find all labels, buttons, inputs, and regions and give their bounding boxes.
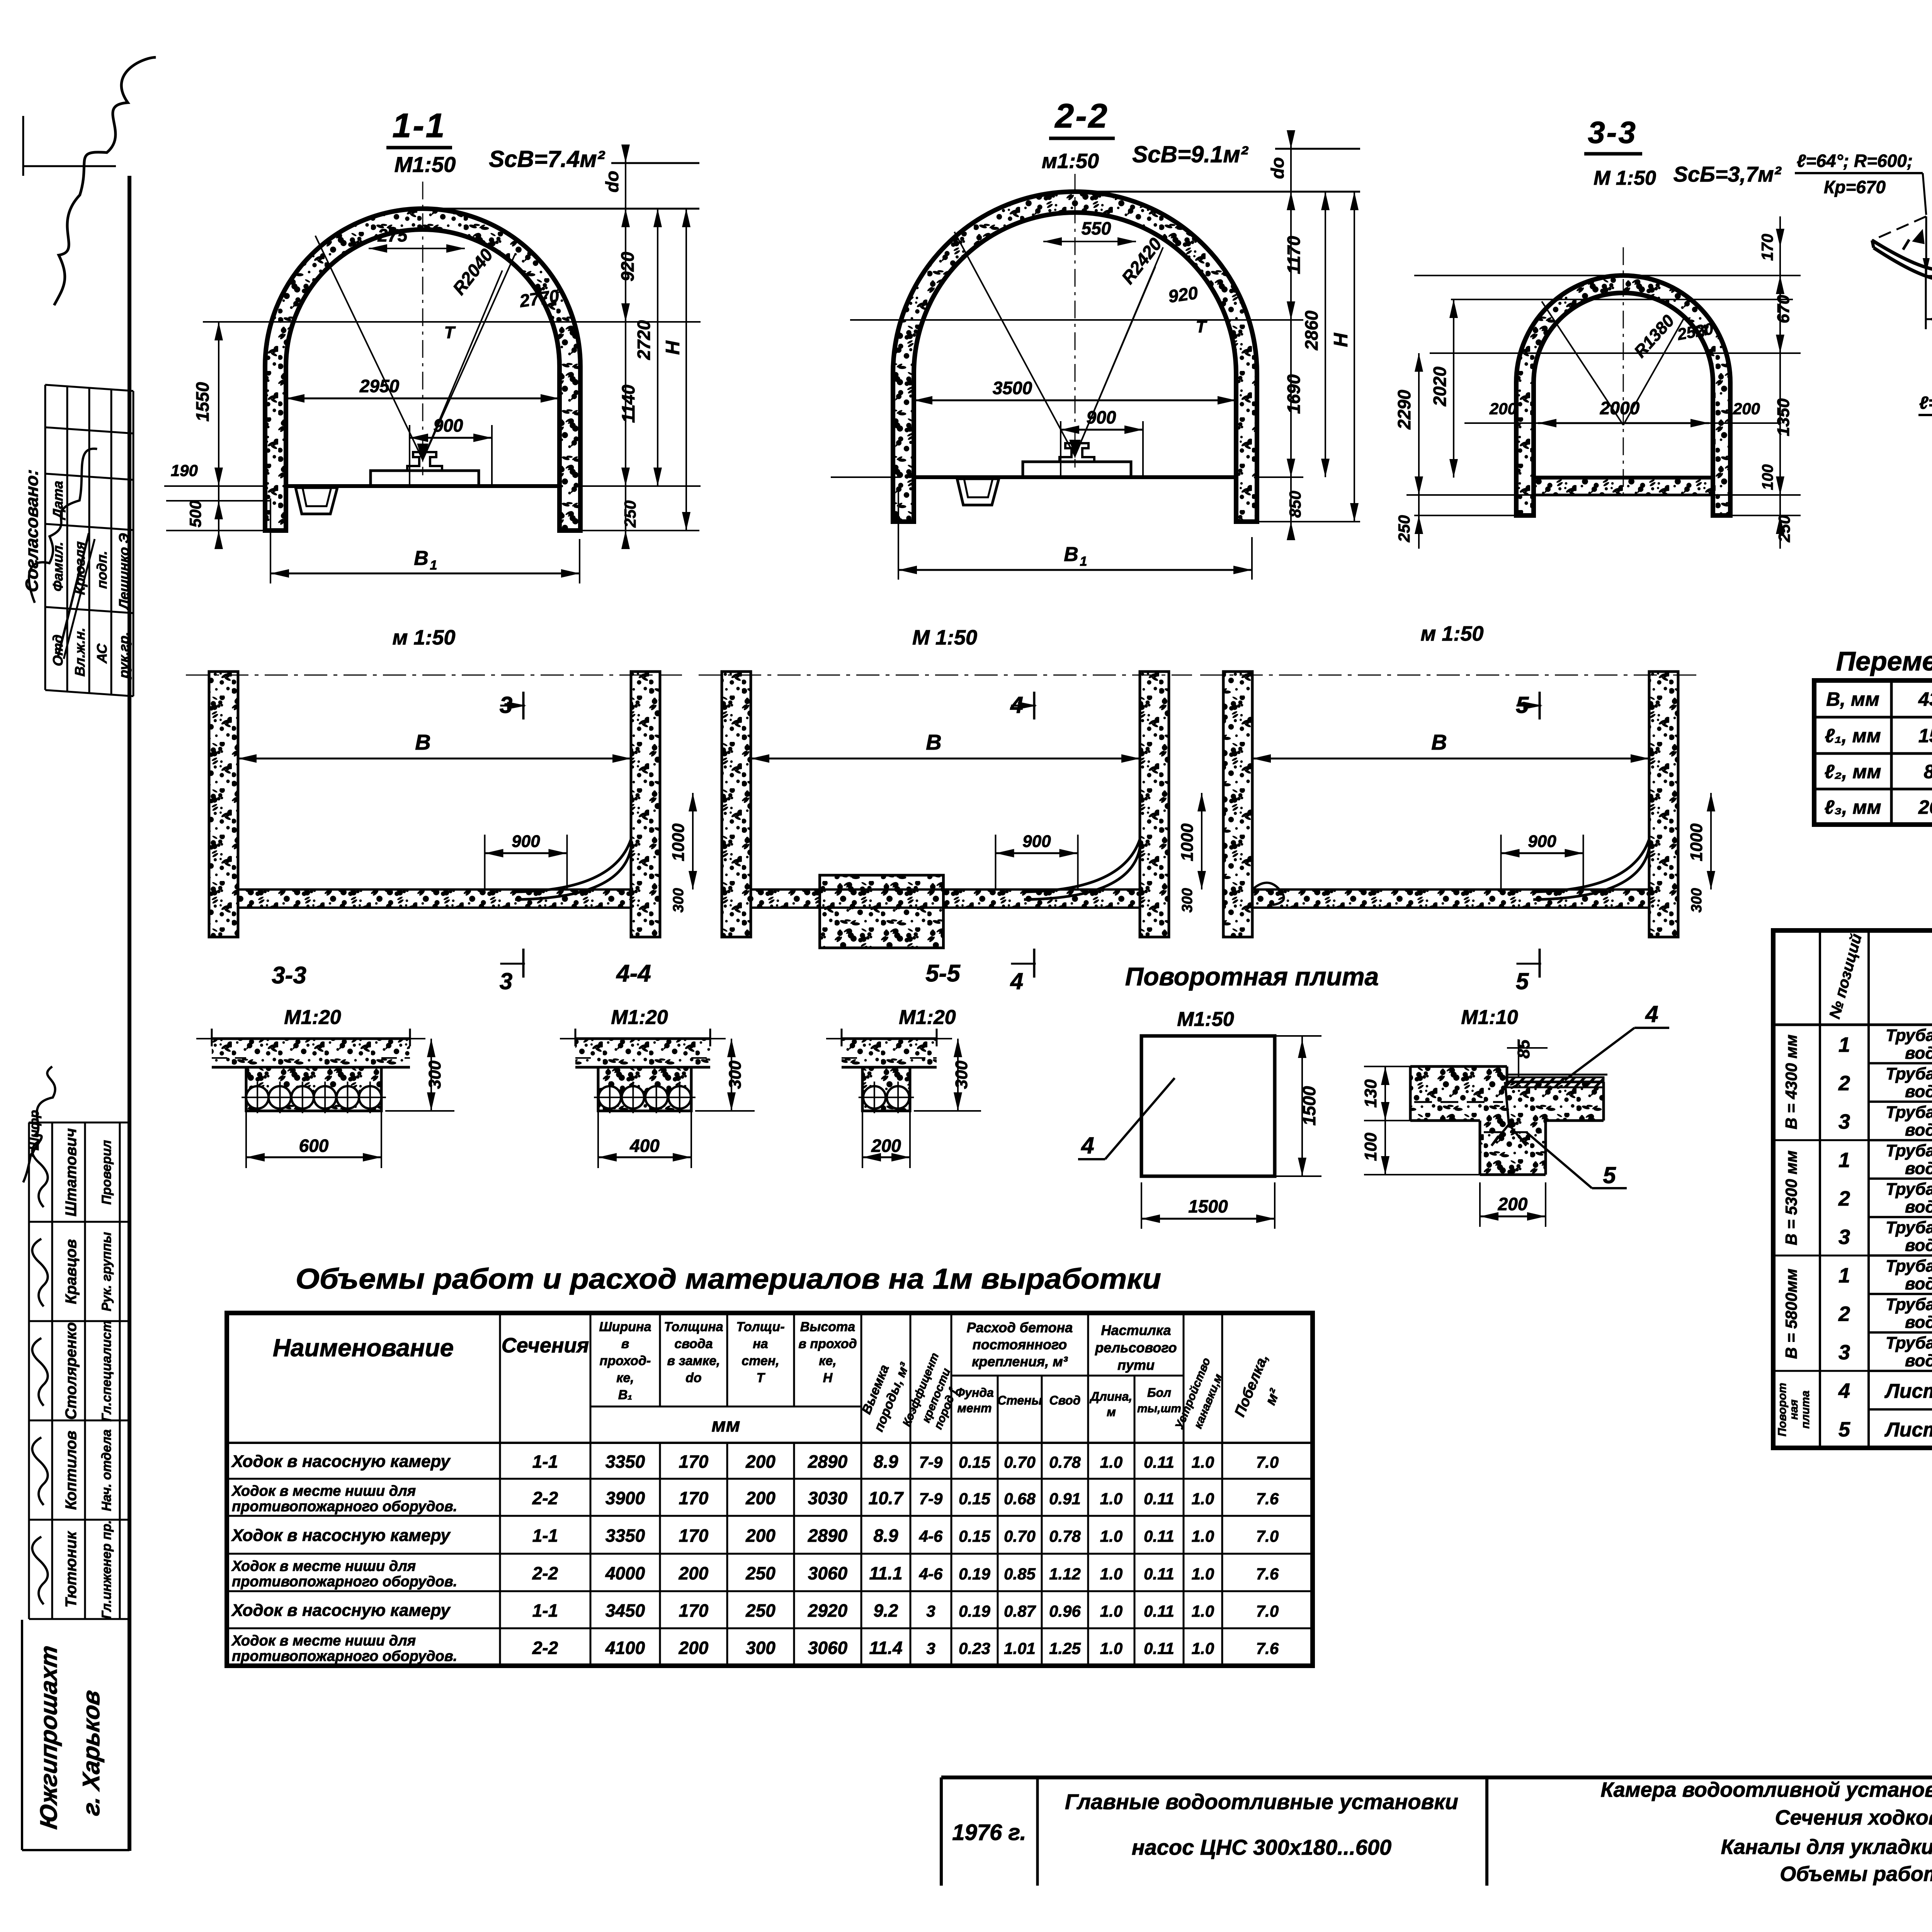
svg-text:300: 300 [670,888,687,912]
svg-text:300: 300 [425,1060,444,1089]
svg-text:М1:20: М1:20 [611,1006,668,1029]
svg-text:8.9: 8.9 [874,1452,898,1472]
svg-text:1.0: 1.0 [1100,1602,1122,1620]
svg-text:3350: 3350 [605,1452,645,1472]
svg-text:dо: dо [1267,157,1287,179]
svg-text:2-2: 2-2 [532,1563,558,1583]
svg-text:550: 550 [1082,218,1111,238]
svg-text:М 1:50: М 1:50 [1594,167,1656,189]
svg-text:5: 5 [1516,968,1529,994]
svg-text:2600: 2600 [1918,796,1932,818]
svg-text:4-6: 4-6 [919,1565,943,1583]
svg-text:водогазопроводная: водогазопроводная [1905,1274,1932,1293]
svg-text:водогазопроводная: водогазопроводная [1905,1082,1932,1101]
svg-text:Поворот: Поворот [1776,1383,1789,1437]
svg-text:Расход бетона: Расход бетона [967,1320,1073,1335]
svg-text:3: 3 [1838,1110,1850,1133]
svg-text:1: 1 [1838,1148,1850,1172]
svg-text:Лешинко Э: Лешинко Э [116,532,132,611]
svg-text:3060: 3060 [808,1563,848,1583]
svg-text:ScВ=9.1м²: ScВ=9.1м² [1132,141,1249,167]
svg-text:Труба стальная: Труба стальная [1886,1257,1932,1276]
svg-text:противопожарного оборудов.: противопожарного оборудов. [232,1574,457,1590]
svg-text:0.68: 0.68 [1004,1490,1036,1508]
svg-text:Труба стальная: Труба стальная [1886,1026,1932,1045]
svg-text:300: 300 [726,1060,745,1089]
svg-text:170: 170 [679,1452,709,1472]
svg-text:Штатович: Штатович [63,1128,80,1216]
svg-text:3: 3 [500,968,512,994]
svg-text:ℓ₁, мм: ℓ₁, мм [1825,725,1881,747]
svg-text:постоянного: постоянного [973,1337,1067,1352]
svg-text:ная: ная [1787,1399,1800,1420]
svg-text:Дата: Дата [50,480,66,520]
svg-text:№ позиций: № позиций [1826,932,1865,1020]
svg-text:В: В [414,547,429,570]
svg-text:5: 5 [1838,1418,1850,1441]
svg-text:3: 3 [926,1602,935,1620]
svg-text:4-6: 4-6 [919,1527,943,1545]
svg-text:2: 2 [1838,1303,1850,1326]
svg-text:Длина,: Длина, [1089,1389,1133,1403]
svg-text:Труба стальная: Труба стальная [1886,1295,1932,1314]
svg-text:400: 400 [629,1136,660,1156]
svg-text:Объемы работ и расход матер: Объемы работ и расход материалов на 1м в… [296,1263,1161,1295]
svg-text:170: 170 [1758,234,1776,261]
svg-text:1976 г.: 1976 г. [952,1820,1026,1845]
svg-text:Труба стальная: Труба стальная [1886,1064,1932,1083]
svg-text:1-1: 1-1 [532,1600,558,1621]
svg-text:200: 200 [1498,1194,1528,1214]
svg-text:1.0: 1.0 [1192,1453,1214,1471]
svg-text:1690: 1690 [1284,374,1304,414]
svg-text:Бол: Бол [1147,1386,1171,1400]
svg-text:2890: 2890 [808,1452,848,1472]
svg-text:Стены: Стены [997,1393,1042,1407]
svg-text:1.0: 1.0 [1192,1602,1214,1620]
svg-text:130: 130 [1361,1079,1380,1108]
svg-text:Т: Т [757,1371,766,1385]
svg-text:Труба стальная: Труба стальная [1886,1333,1932,1352]
svg-text:Наименование: Наименование [273,1334,454,1362]
svg-text:м 1:50: м 1:50 [1420,622,1483,645]
svg-text:600: 600 [299,1136,329,1156]
svg-text:1.0: 1.0 [1100,1565,1122,1583]
svg-text:2000: 2000 [1600,398,1640,418]
svg-text:м: м [1107,1405,1116,1419]
svg-text:850: 850 [1286,491,1304,518]
svg-text:11.1: 11.1 [869,1563,902,1583]
svg-text:в замке,: в замке, [667,1354,720,1368]
svg-text:4300: 4300 [1918,689,1932,710]
svg-text:М 1:50: М 1:50 [912,626,977,649]
svg-text:1.01: 1.01 [1004,1639,1036,1658]
svg-text:Ширина: Ширина [599,1320,651,1334]
svg-text:0.91: 0.91 [1049,1490,1081,1508]
svg-text:Шифр: Шифр [27,1110,42,1151]
svg-text:рук.гр.: рук.гр. [116,631,132,679]
svg-text:300: 300 [746,1638,776,1658]
svg-text:200: 200 [1733,400,1760,418]
svg-text:0.23: 0.23 [959,1639,990,1658]
svg-text:М1:50: М1:50 [1177,1008,1234,1031]
svg-text:м²: м² [1262,1386,1284,1407]
svg-text:4: 4 [1010,692,1023,718]
svg-text:В: В [415,730,430,754]
svg-text:АС: АС [94,643,110,664]
svg-text:Проверил: Проверил [99,1140,114,1204]
svg-text:стен,: стен, [742,1354,779,1368]
svg-text:0.85: 0.85 [1004,1565,1036,1583]
svg-text:Рук. группы: Рук. группы [99,1232,114,1311]
svg-text:0.70: 0.70 [1004,1453,1036,1471]
svg-text:9.2: 9.2 [874,1600,898,1621]
svg-text:200: 200 [745,1488,776,1508]
svg-text:Толщи-: Толщи- [736,1320,784,1334]
svg-text:Высота: Высота [800,1320,855,1334]
svg-text:1.12: 1.12 [1049,1565,1081,1583]
svg-text:водогазопроводная: водогазопроводная [1905,1313,1932,1332]
svg-text:ℓ₂, мм: ℓ₂, мм [1825,761,1881,782]
svg-text:Побелка,: Побелка, [1231,1352,1271,1419]
svg-text:3-3: 3-3 [272,962,306,989]
svg-text:0.11: 0.11 [1144,1639,1174,1658]
svg-text:М1:10: М1:10 [1461,1006,1518,1029]
svg-text:Труба стальная: Труба стальная [1886,1218,1932,1237]
svg-text:водогазопроводная: водогазопроводная [1905,1121,1932,1139]
svg-text:4: 4 [1010,968,1023,994]
svg-text:900: 900 [1022,832,1051,851]
svg-text:насос ЦНС 300х180...600: насос ЦНС 300х180...600 [1132,1835,1391,1859]
svg-text:ℓ=64°; R=600;: ℓ=64°; R=600; [1797,151,1913,171]
svg-text:1.0: 1.0 [1192,1527,1214,1545]
svg-text:1: 1 [430,558,437,573]
svg-text:В₁: В₁ [618,1388,633,1402]
svg-text:м1:50: м1:50 [1042,150,1099,173]
svg-text:Коптилов: Коптилов [63,1431,80,1510]
svg-text:11.4: 11.4 [869,1638,902,1658]
svg-text:противопожарного оборудов.: противопожарного оборудов. [232,1498,457,1515]
svg-text:2-2: 2-2 [1054,97,1109,135]
svg-text:0.19: 0.19 [959,1565,990,1583]
svg-text:100: 100 [1759,464,1776,490]
svg-text:7.6: 7.6 [1256,1490,1279,1508]
svg-text:900: 900 [434,415,463,435]
svg-text:М1:50: М1:50 [395,152,456,177]
svg-text:ScБ=3,7м²: ScБ=3,7м² [1673,162,1782,186]
svg-text:Т: Т [1196,317,1207,336]
svg-text:670: 670 [1774,295,1793,323]
svg-text:2920: 2920 [808,1600,848,1621]
svg-text:1000: 1000 [1687,823,1706,861]
svg-text:свода: свода [674,1337,713,1351]
svg-text:Объемы работ: Объемы работ [1780,1862,1932,1886]
svg-text:dо: dо [602,171,622,192]
svg-text:0.11: 0.11 [1144,1565,1174,1583]
svg-text:4: 4 [1838,1379,1850,1403]
svg-text:Сечения: Сечения [502,1334,589,1357]
svg-text:Согласовано:: Согласовано: [22,469,42,593]
svg-text:Главные водоотливные установки: Главные водоотливные установки [1065,1789,1458,1814]
svg-text:200: 200 [679,1563,709,1583]
svg-text:Настилка: Настилка [1101,1322,1171,1338]
svg-text:1500: 1500 [1188,1196,1228,1216]
svg-text:1.25: 1.25 [1049,1639,1081,1658]
svg-text:7.6: 7.6 [1256,1565,1279,1583]
svg-text:2720: 2720 [634,320,654,360]
svg-text:В = 4300 мм: В = 4300 мм [1782,1034,1800,1129]
svg-text:0.11: 0.11 [1144,1453,1174,1471]
svg-text:1.0: 1.0 [1100,1527,1122,1545]
svg-text:1140: 1140 [618,384,638,423]
svg-text:2-2: 2-2 [532,1638,558,1658]
svg-text:1000: 1000 [1178,823,1197,861]
svg-text:1.0: 1.0 [1100,1639,1122,1658]
svg-text:1-1: 1-1 [392,106,446,145]
svg-text:2: 2 [1838,1071,1850,1095]
svg-text:4000: 4000 [605,1563,645,1583]
svg-text:10.7: 10.7 [869,1488,904,1508]
svg-text:300: 300 [952,1060,971,1089]
svg-text:H: H [1330,333,1352,347]
svg-text:Ходок в месте ниши для: Ходок в месте ниши для [231,1483,416,1499]
svg-text:250: 250 [745,1563,776,1583]
svg-text:2: 2 [1838,1187,1850,1210]
svg-text:Свод: Свод [1049,1393,1081,1407]
svg-text:3: 3 [500,692,512,718]
svg-text:Столяренко: Столяренко [63,1322,80,1420]
svg-text:190: 190 [171,461,198,480]
svg-text:ScВ=7.4м²: ScВ=7.4м² [489,146,605,172]
svg-text:4-4: 4-4 [616,960,651,987]
svg-text:Ходок в насосную камеру: Ходок в насосную камеру [231,1452,451,1471]
svg-text:7-9: 7-9 [919,1453,943,1471]
svg-text:Ходок в месте ниши для: Ходок в месте ниши для [231,1633,416,1649]
svg-text:Фунда: Фунда [955,1386,994,1400]
svg-text:Н: Н [823,1371,833,1385]
svg-text:1: 1 [1838,1033,1850,1056]
svg-text:0.70: 0.70 [1004,1527,1036,1545]
svg-text:В: В [1064,543,1078,566]
svg-text:ℓ₃, мм: ℓ₃, мм [1825,796,1881,818]
svg-text:4100: 4100 [605,1638,645,1658]
svg-text:1.0: 1.0 [1192,1490,1214,1508]
svg-text:170: 170 [679,1488,709,1508]
svg-text:3: 3 [1838,1341,1850,1364]
svg-text:900: 900 [1087,407,1116,427]
svg-text:В: В [1431,730,1447,754]
svg-text:водогазопроводная: водогазопроводная [1905,1044,1932,1063]
svg-text:ке,: ке, [616,1371,634,1385]
svg-text:H: H [662,340,684,355]
svg-text:dо: dо [685,1371,702,1385]
svg-text:0.19: 0.19 [959,1602,990,1620]
svg-text:3450: 3450 [605,1600,645,1621]
svg-text:водогазопроводная: водогазопроводная [1905,1351,1932,1370]
svg-text:водогазопроводная: водогазопроводная [1905,1159,1932,1178]
svg-text:Сечения ходков.: Сечения ходков. [1775,1806,1932,1829]
svg-text:1: 1 [1838,1264,1850,1287]
svg-text:Южгипрошахт: Южгипрошахт [36,1644,62,1831]
svg-text:0.11: 0.11 [1144,1602,1174,1620]
svg-text:200: 200 [871,1136,901,1156]
svg-text:1350: 1350 [1774,398,1793,436]
svg-text:мент: мент [957,1401,992,1415]
svg-text:подп.: подп. [94,550,110,589]
svg-text:пути: пути [1117,1357,1155,1373]
svg-text:1170: 1170 [1284,236,1304,274]
svg-text:3350: 3350 [605,1526,645,1546]
svg-text:7.0: 7.0 [1256,1527,1279,1545]
svg-text:М1:20: М1:20 [899,1006,956,1029]
svg-text:водогазопроводная: водогазопроводная [1905,1197,1932,1216]
svg-text:М1:20: М1:20 [284,1006,341,1029]
svg-text:0.78: 0.78 [1049,1453,1081,1471]
svg-text:Гл.специалист: Гл.специалист [99,1320,114,1422]
svg-text:0.11: 0.11 [1144,1490,1174,1508]
svg-text:7-9: 7-9 [919,1490,943,1508]
svg-text:R2040: R2040 [449,245,497,298]
svg-text:2290: 2290 [1394,389,1414,430]
svg-text:7.0: 7.0 [1256,1602,1279,1620]
svg-text:м 1:50: м 1:50 [392,626,455,649]
svg-text:г. Харьков: г. Харьков [78,1689,105,1818]
svg-text:Вл.ж.н.: Вл.ж.н. [72,627,88,677]
svg-text:2890: 2890 [808,1526,848,1546]
svg-text:Тютюник: Тютюник [63,1531,80,1608]
svg-text:1-1: 1-1 [532,1452,558,1472]
svg-text:Переменные величины: Переменные величины [1836,646,1932,676]
svg-text:водогазопроводная: водогазопроводная [1905,1236,1932,1255]
svg-text:0.96: 0.96 [1049,1602,1081,1620]
svg-text:0.11: 0.11 [1144,1527,1174,1545]
svg-text:1.0: 1.0 [1100,1453,1122,1471]
svg-text:В: В [926,730,941,754]
svg-text:85: 85 [1514,1039,1533,1058]
svg-text:Толщина: Толщина [664,1320,723,1334]
svg-text:300: 300 [1179,888,1196,912]
svg-text:Т: Т [444,323,456,342]
svg-text:7.6: 7.6 [1256,1639,1279,1658]
svg-text:Труба стальная: Труба стальная [1886,1141,1932,1160]
svg-text:3-3: 3-3 [1588,115,1637,150]
svg-text:Лист 6х80х150: Лист 6х80х150 [1884,1418,1932,1441]
svg-text:7.0: 7.0 [1256,1453,1279,1471]
svg-text:0.15: 0.15 [959,1453,990,1471]
svg-text:1500: 1500 [1299,1086,1319,1126]
svg-text:500: 500 [186,500,204,527]
svg-text:1.0: 1.0 [1192,1639,1214,1658]
svg-text:8.9: 8.9 [874,1526,898,1546]
svg-text:Ходок в месте ниши для: Ходок в месте ниши для [231,1558,416,1575]
svg-text:В = 5800мм: В = 5800мм [1782,1269,1800,1359]
svg-text:Поворотная плита: Поворотная плита [1125,962,1379,991]
svg-text:Труба стальная: Труба стальная [1886,1103,1932,1122]
svg-text:1000: 1000 [669,823,688,861]
svg-text:2-2: 2-2 [532,1488,558,1508]
svg-text:3900: 3900 [605,1488,645,1508]
svg-text:250: 250 [745,1600,776,1621]
svg-text:ке,: ке, [819,1354,837,1368]
svg-text:противопожарного оборудов.: противопожарного оборудов. [232,1648,457,1665]
svg-text:плита: плита [1799,1391,1812,1429]
svg-text:Кравцов: Кравцов [63,1239,80,1304]
svg-text:проход-: проход- [600,1354,651,1368]
svg-text:900: 900 [1528,832,1556,851]
svg-text:200: 200 [679,1638,709,1658]
svg-text:0.15: 0.15 [959,1527,990,1545]
svg-text:Нач. отдела: Нач. отдела [99,1429,114,1511]
svg-text:1550: 1550 [192,382,213,422]
svg-text:0.78: 0.78 [1049,1527,1081,1545]
svg-text:275: 275 [378,225,408,245]
svg-text:Каналы для укладки труб.: Каналы для укладки труб. [1721,1835,1932,1859]
svg-text:100: 100 [1361,1133,1380,1161]
svg-text:170: 170 [679,1526,709,1546]
svg-text:3500: 3500 [993,378,1032,398]
svg-text:В = 5300 мм: В = 5300 мм [1782,1150,1800,1245]
svg-text:3030: 3030 [808,1488,848,1508]
svg-text:в: в [621,1337,629,1351]
svg-text:2950: 2950 [359,376,400,396]
svg-text:3060: 3060 [808,1638,848,1658]
svg-text:3: 3 [926,1639,935,1658]
svg-text:ℓ=64°; R=600;: ℓ=64°; R=600; [1919,393,1932,413]
svg-text:в проход: в проход [798,1337,857,1351]
svg-text:Лист 10х1500х1500: Лист 10х1500х1500 [1884,1380,1932,1403]
svg-text:2860: 2860 [1301,310,1321,350]
svg-text:200: 200 [745,1526,776,1546]
svg-text:ты,шт: ты,шт [1137,1402,1181,1415]
svg-text:300: 300 [1689,888,1705,912]
svg-text:250: 250 [621,500,639,528]
svg-text:5: 5 [1603,1162,1616,1188]
svg-text:Ходок в насосную камеру: Ходок в насосную камеру [231,1526,451,1545]
svg-text:0.87: 0.87 [1004,1602,1036,1620]
svg-text:крепления, м³: крепления, м³ [972,1354,1068,1369]
svg-text:200: 200 [745,1452,776,1472]
svg-text:4: 4 [1081,1133,1094,1158]
svg-text:250: 250 [1395,515,1413,543]
svg-text:170: 170 [679,1600,709,1621]
svg-text:на: на [753,1337,768,1351]
svg-text:4: 4 [1645,1001,1658,1027]
svg-text:рельсового: рельсового [1095,1340,1177,1355]
svg-text:Ходок в насосную камеру: Ходок в насосную камеру [231,1601,451,1620]
svg-text:920: 920 [617,252,638,281]
svg-text:1.0: 1.0 [1100,1490,1122,1508]
svg-text:Камера водоотливной установки: Камера водоотливной установки на 5агрега… [1600,1778,1932,1801]
svg-text:200: 200 [1489,400,1517,418]
svg-text:3: 3 [1838,1226,1850,1249]
svg-text:800: 800 [1924,761,1932,782]
svg-text:920: 920 [1167,282,1199,306]
svg-text:мм: мм [712,1414,740,1436]
svg-text:Гл.инженер пр.: Гл.инженер пр. [99,1520,114,1619]
svg-text:В, мм: В, мм [1826,689,1879,710]
svg-text:1: 1 [1080,554,1087,569]
svg-text:5-5: 5-5 [925,960,961,987]
svg-text:0.15: 0.15 [959,1490,990,1508]
svg-text:1-1: 1-1 [532,1526,558,1546]
svg-text:1.0: 1.0 [1192,1565,1214,1583]
svg-text:5: 5 [1516,692,1529,718]
svg-text:900: 900 [512,832,540,851]
svg-text:Кр=670: Кр=670 [1824,177,1886,197]
svg-text:Труба стальная: Труба стальная [1886,1180,1932,1199]
svg-text:2020: 2020 [1430,366,1450,406]
svg-text:1500: 1500 [1918,725,1932,747]
